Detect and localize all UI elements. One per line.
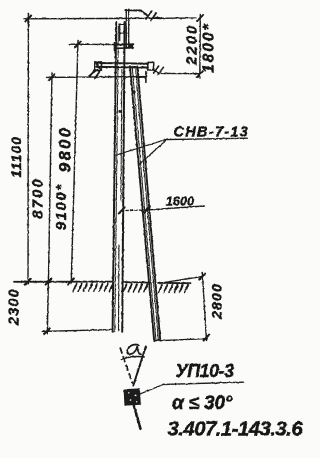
svg-text:9800: 9800 bbox=[56, 126, 75, 173]
svg-text:УП10-3: УП10-3 bbox=[176, 361, 235, 381]
svg-text:9100*: 9100* bbox=[54, 183, 70, 230]
svg-text:2200: 2200 bbox=[183, 24, 200, 66]
svg-text:α ≤ 30°: α ≤ 30° bbox=[172, 393, 233, 414]
svg-text:2800: 2800 bbox=[209, 283, 225, 320]
svg-text:8700: 8700 bbox=[29, 177, 46, 218]
svg-text:СНВ-7-13: СНВ-7-13 bbox=[174, 125, 250, 141]
svg-text:1600: 1600 bbox=[166, 194, 195, 208]
svg-text:1800*: 1800* bbox=[201, 22, 218, 73]
svg-text:2300: 2300 bbox=[7, 288, 23, 326]
svg-text:3.407.1-143.3.6: 3.407.1-143.3.6 bbox=[168, 418, 304, 441]
svg-text:11100: 11100 bbox=[8, 136, 24, 178]
